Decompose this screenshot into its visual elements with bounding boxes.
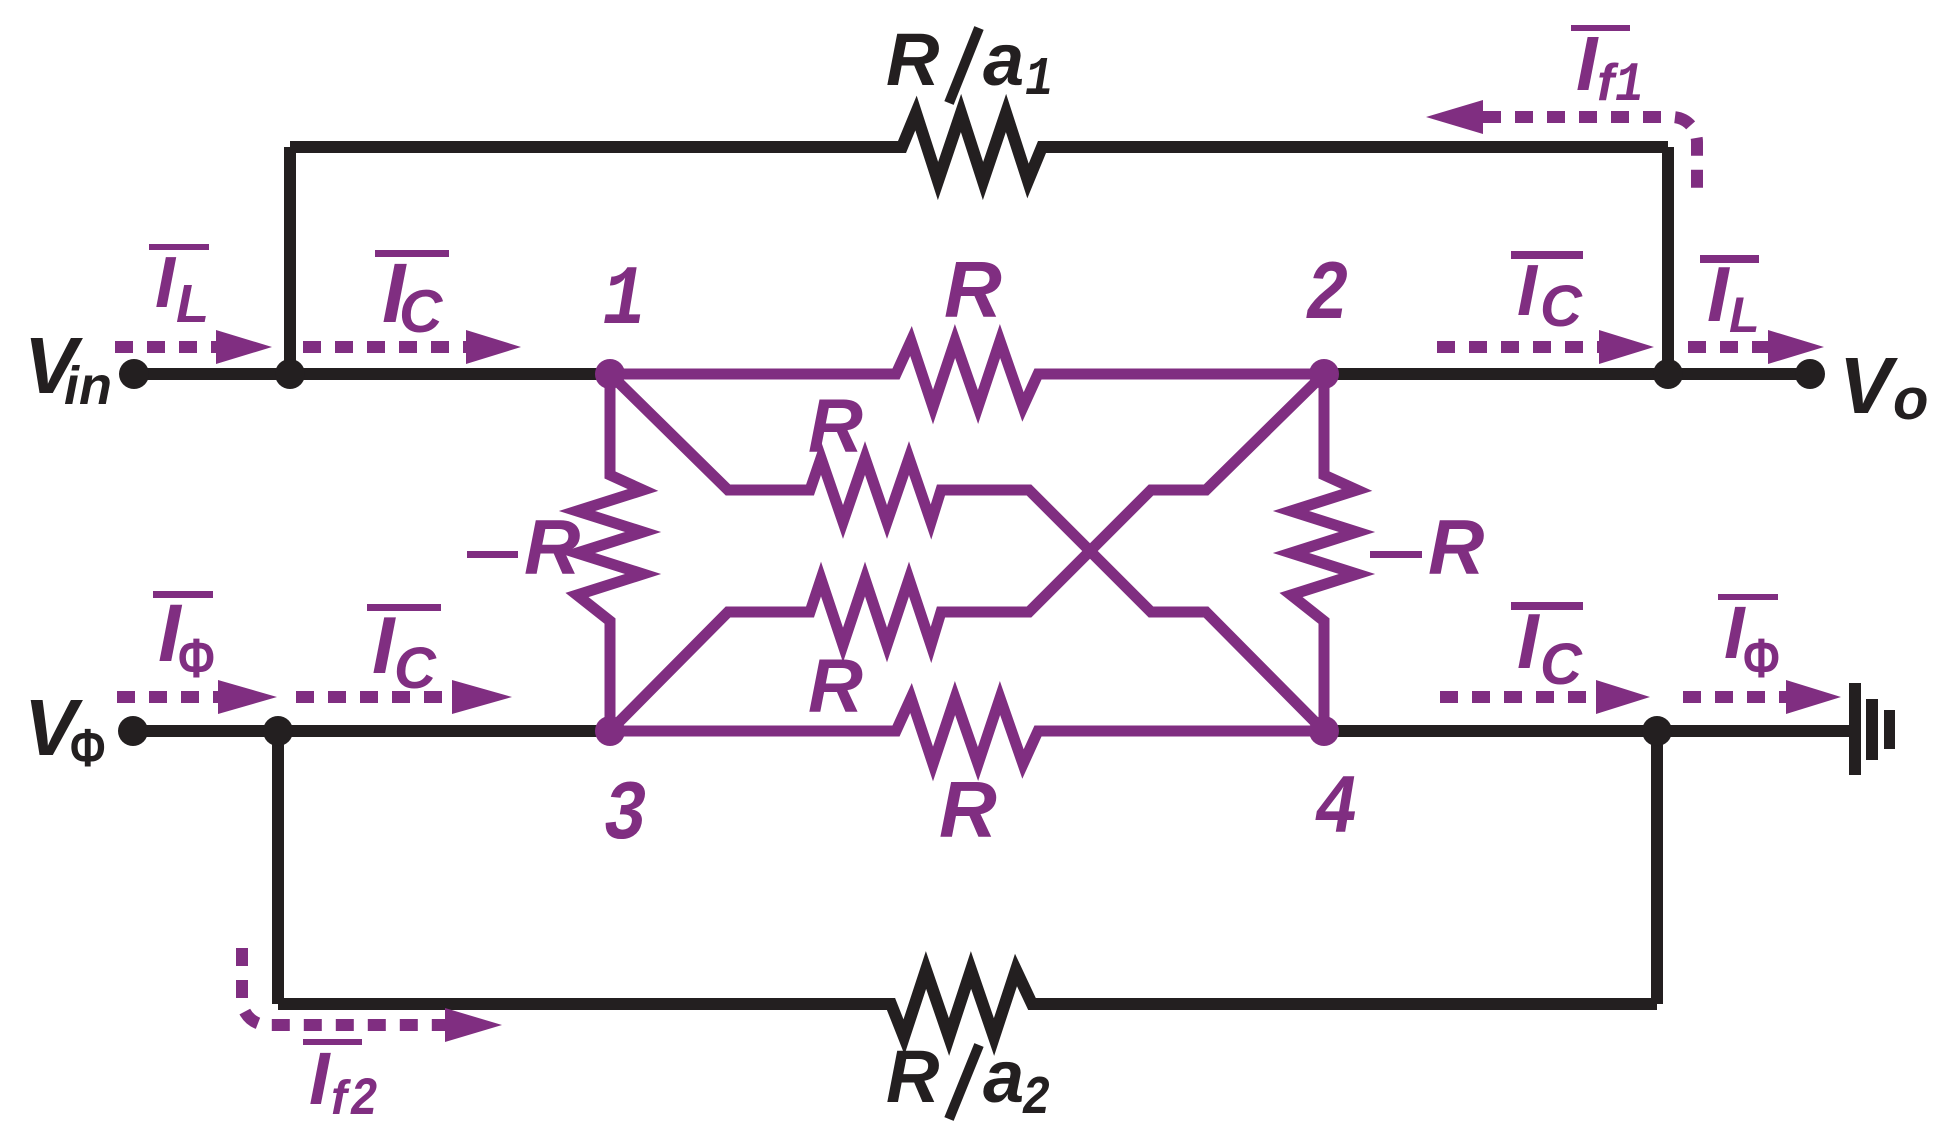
svg-text:R: R	[939, 765, 997, 854]
label Vin	[24, 321, 112, 416]
wire bottom feedback loop right vertical	[1651, 731, 1663, 1004]
node Vo terminal dot	[1795, 359, 1825, 389]
svg-text:R: R	[808, 644, 863, 729]
label node 3	[604, 769, 647, 864]
svg-text:in: in	[64, 356, 112, 416]
current arrow If1 (dashed, bends down at right)	[1483, 117, 1697, 196]
label -R left	[467, 503, 580, 591]
svg-text:R: R	[886, 18, 939, 101]
node top-right junction dot	[1653, 359, 1683, 389]
current arrow IC bottom-left (dashed)	[296, 691, 453, 703]
current arrow IL left (dashed)	[115, 341, 218, 353]
label R/a2 bottom	[886, 1035, 1050, 1130]
svg-text:Φ: Φ	[1743, 626, 1780, 689]
current arrow Iphi right (dashed)	[1683, 691, 1788, 703]
label Iphi right with overbar	[1718, 591, 1780, 689]
resistor R cross branch node3 to node2	[610, 374, 1324, 731]
svg-text:2: 2	[350, 1070, 378, 1131]
current arrow Iphi left (dashed)	[117, 691, 220, 703]
label IC bottom-left with overbar	[367, 601, 441, 701]
node Vin terminal dot	[119, 359, 149, 389]
svg-text:L: L	[1729, 287, 1760, 343]
svg-text:Φ: Φ	[178, 626, 215, 689]
wire top feedback loop right vertical	[1662, 147, 1674, 374]
node bottom-right junction dot	[1642, 716, 1672, 746]
label If1 with overbar	[1571, 21, 1644, 117]
current arrow IC bottom-right (dashed)	[1440, 691, 1598, 703]
current arrow IC top-left (dashed)	[303, 341, 470, 353]
label IL right with overbar	[1700, 250, 1760, 343]
wire bottom feedback loop left vertical	[272, 731, 284, 1004]
svg-text:I: I	[1707, 250, 1730, 338]
current arrow IL right (dashed)	[1688, 341, 1770, 353]
label node 4	[1315, 763, 1358, 858]
wire bottom feedback loop horizontal + resistor R/a2	[278, 970, 1657, 1037]
label IC top-right with overbar	[1511, 251, 1583, 339]
resistor R cross branch node1 to node4	[610, 374, 1324, 731]
svg-text:I: I	[1576, 21, 1599, 107]
svg-text:4: 4	[1315, 763, 1358, 858]
svg-text:R: R	[886, 1035, 939, 1118]
node bottom-left junction dot	[263, 716, 293, 746]
label node 1	[603, 254, 646, 349]
svg-text:a: a	[983, 18, 1024, 101]
svg-text:I: I	[372, 601, 396, 691]
node 1 dot	[595, 359, 625, 389]
current arrow If2 (dashed, bends from vertical to horizontal)	[242, 948, 446, 1025]
node top-left junction dot	[275, 359, 305, 389]
svg-text:C: C	[394, 636, 437, 701]
svg-text:C: C	[399, 278, 444, 345]
label Vo	[1839, 341, 1928, 432]
ground	[1849, 683, 1895, 775]
label IL left with overbar	[149, 243, 209, 334]
node Vphi terminal dot	[118, 716, 148, 746]
label Iphi left with overbar	[153, 588, 215, 689]
svg-text:1: 1	[1615, 54, 1644, 118]
wire bottom rail right (node 4 to ground)	[1324, 725, 1849, 737]
svg-text:R: R	[1428, 503, 1484, 591]
resistor R top rail (node1-node2)	[610, 341, 1324, 407]
resistor R bottom rail (node3-node4)	[610, 698, 1324, 764]
wire top feedback loop horizontal + resistor R/a1	[290, 113, 1668, 181]
svg-text:R: R	[524, 503, 580, 591]
label If2 with overbar	[303, 1037, 378, 1131]
node 3 dot	[595, 716, 625, 746]
resistor -R left vertical (node1-node3)	[577, 374, 643, 731]
label -R right	[1370, 503, 1484, 591]
svg-text:V: V	[1839, 341, 1898, 430]
svg-text:I: I	[1517, 251, 1539, 331]
svg-text:a: a	[983, 1035, 1024, 1118]
node 2 dot	[1309, 359, 1339, 389]
svg-text:f: f	[331, 1072, 351, 1125]
svg-text:L: L	[176, 274, 209, 334]
label Vphi	[24, 683, 105, 778]
wire top rail right (node 2 to Vo)	[1324, 368, 1810, 380]
svg-text:R: R	[808, 384, 863, 469]
wire top rail left (Vin to node 1)	[134, 368, 610, 380]
svg-text:1: 1	[603, 254, 646, 349]
svg-text:1: 1	[1025, 50, 1053, 111]
svg-text:C: C	[1540, 632, 1583, 697]
label node 2	[1306, 249, 1349, 344]
label IC bottom-right with overbar	[1511, 597, 1583, 697]
svg-text:I: I	[155, 243, 177, 323]
svg-text:I: I	[1517, 597, 1540, 685]
svg-text:I: I	[309, 1037, 331, 1120]
resistor -R right vertical (node2-node4)	[1291, 374, 1357, 731]
svg-text:o: o	[1893, 367, 1928, 432]
svg-text:3: 3	[604, 769, 647, 864]
svg-text:R: R	[944, 245, 1002, 334]
node 4 dot	[1309, 716, 1339, 746]
label IC top-left with overbar	[375, 246, 449, 345]
svg-text:C: C	[1540, 274, 1583, 339]
svg-text:2: 2	[1022, 1069, 1050, 1130]
wire bottom rail left (Vphi to node 3)	[133, 725, 610, 737]
label R/a1 top	[886, 18, 1053, 111]
wire top feedback loop left vertical	[284, 147, 296, 374]
svg-text:2: 2	[1306, 249, 1349, 344]
svg-text:Φ: Φ	[70, 719, 105, 779]
current arrow IC top-right (dashed)	[1437, 341, 1600, 353]
